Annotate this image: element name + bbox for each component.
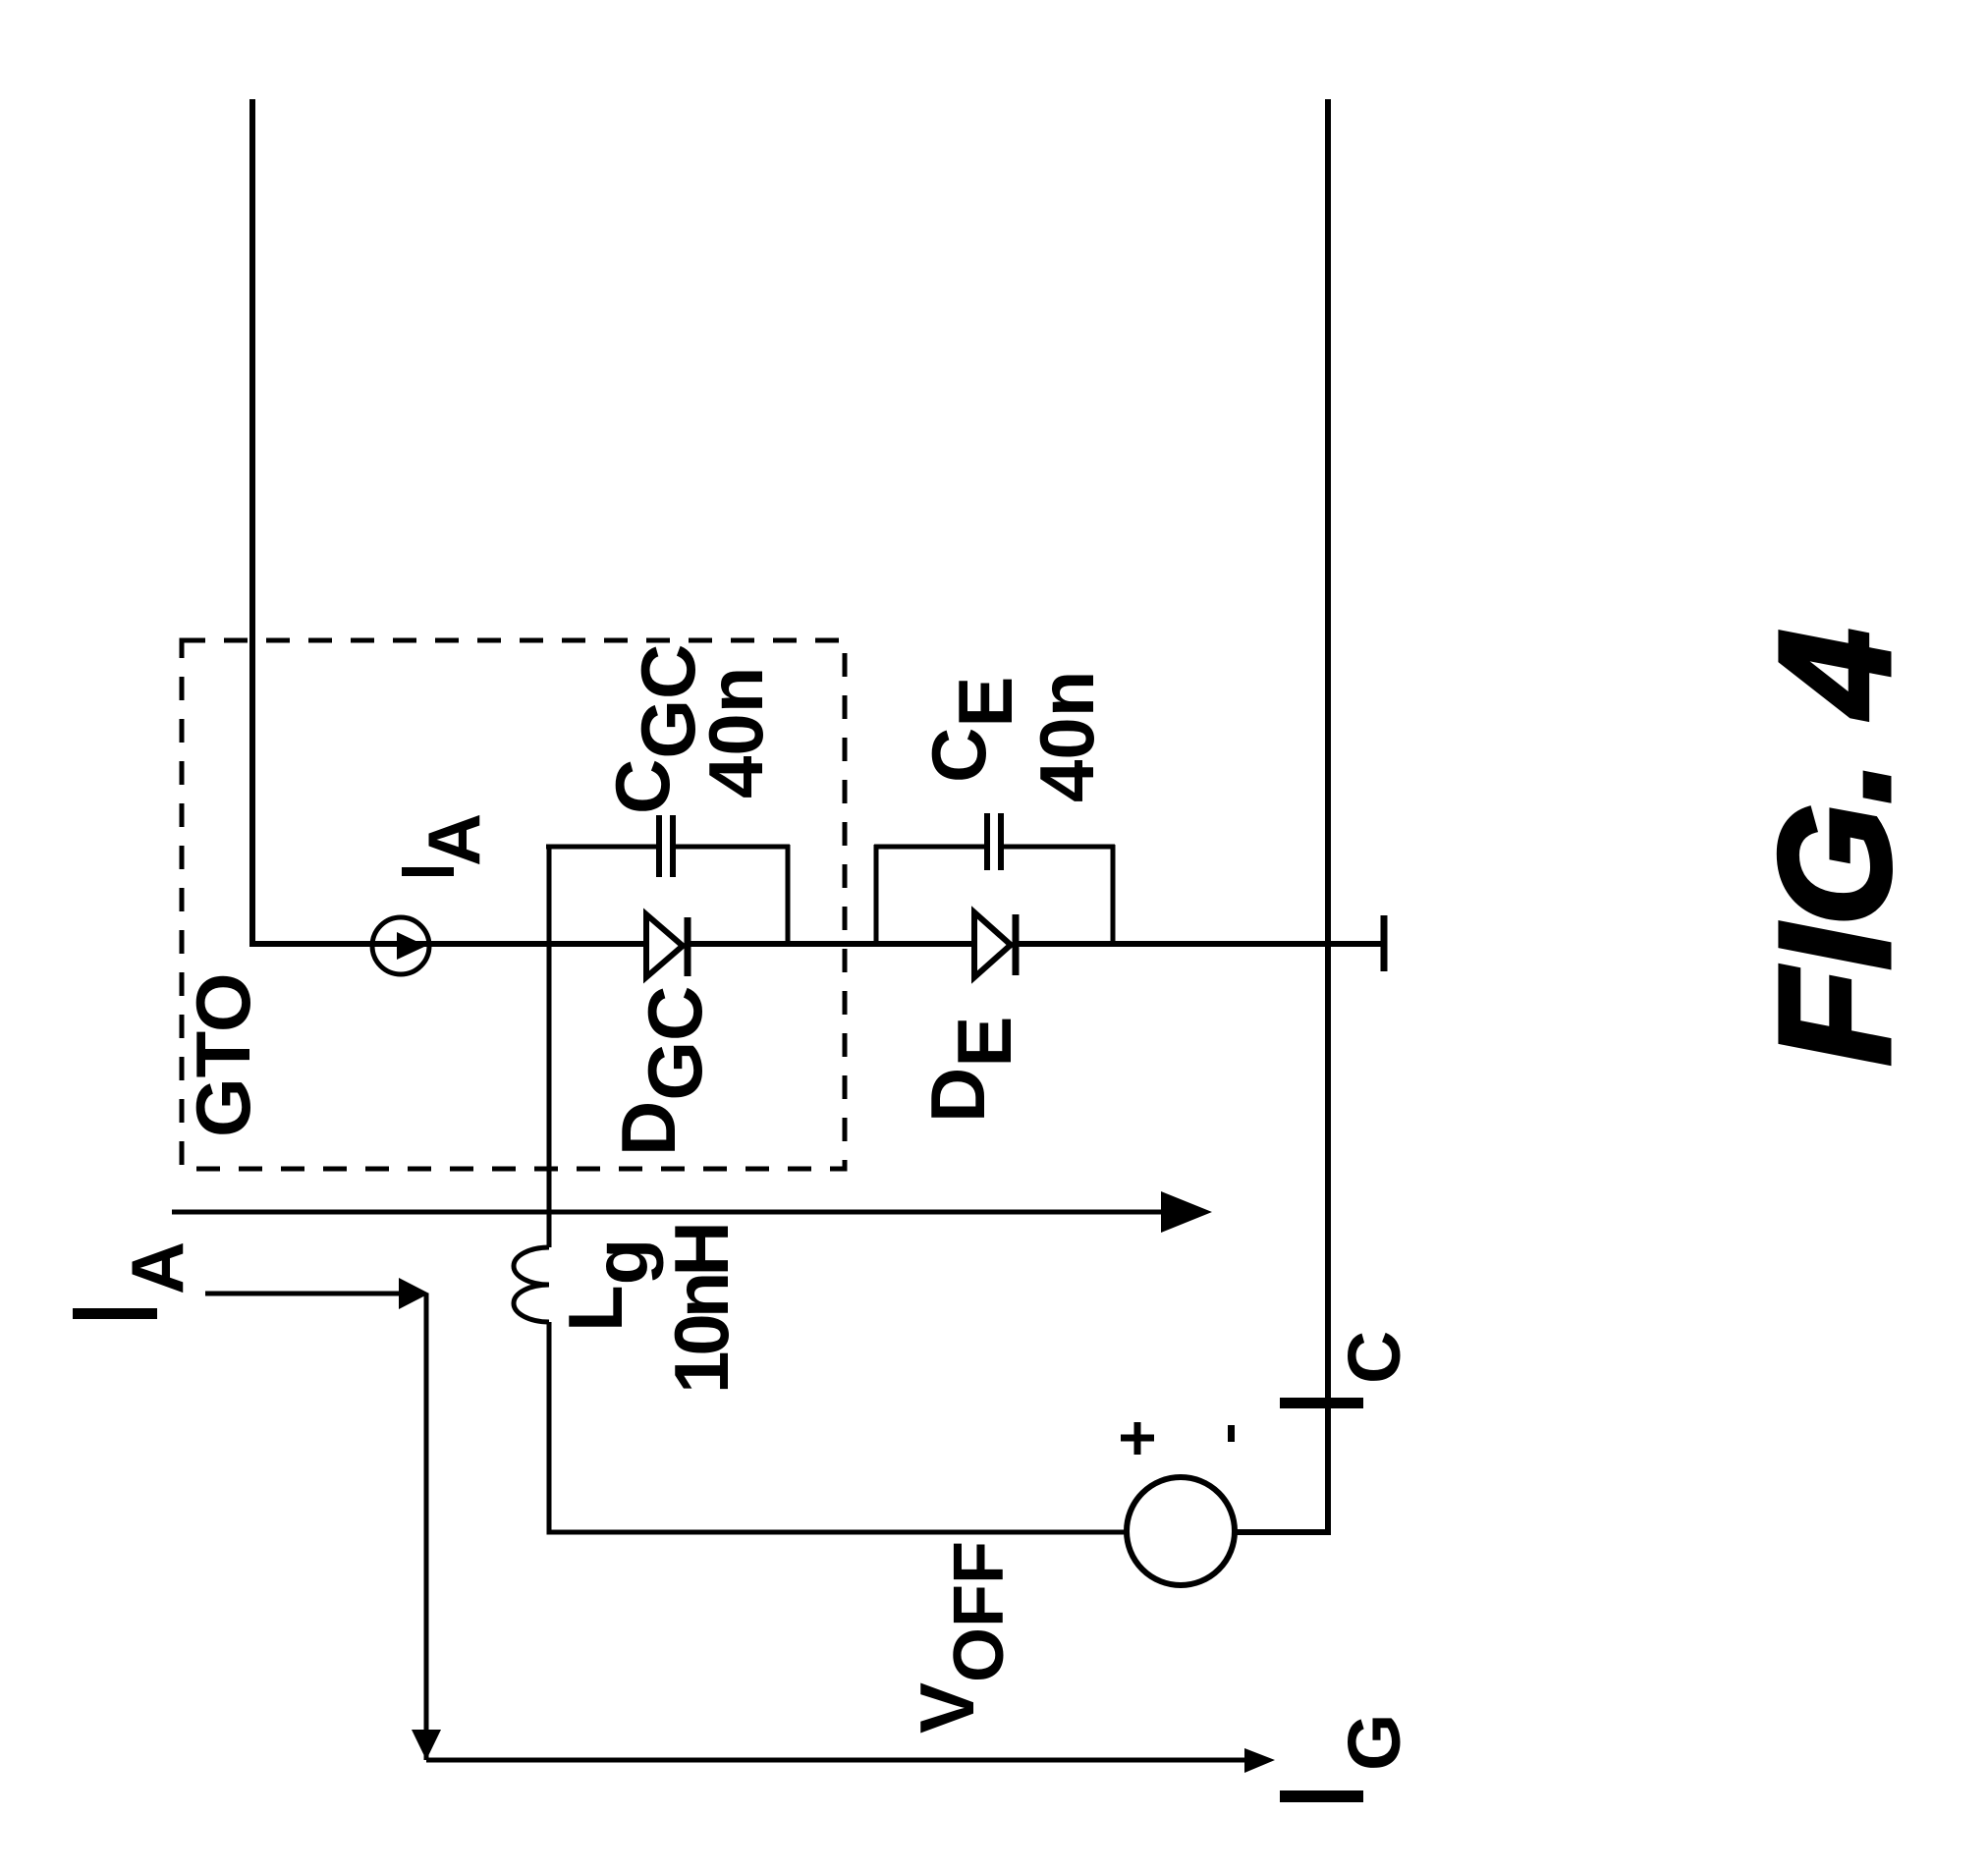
minus sign (rotated): [1228, 1425, 1235, 1442]
arrow I_A short with elbow down to I_G: [205, 1278, 1275, 1773]
wire main horizontal segment left: [249, 941, 646, 947]
svg-text:40n: 40n: [692, 667, 779, 798]
wire C_GC branch right vertical: [786, 845, 791, 944]
arrow I_A long (under GTO box): [172, 1191, 1212, 1233]
svg-text:A: A: [413, 813, 495, 866]
voltage source V_OFF circle: [1127, 1477, 1235, 1585]
capacitor C_E plates: [984, 813, 1004, 870]
wire anode lead left vertical: [249, 99, 255, 947]
wire gate vertical lower: [549, 1322, 1127, 1532]
wire main horizontal segment right: [1015, 941, 1381, 947]
wire cathode lead right vertical: [1325, 99, 1331, 1535]
svg-text:A: A: [116, 1241, 198, 1294]
wire C_GC branch top right segment: [676, 845, 790, 850]
current source circle with arrow (I_A): [372, 917, 429, 974]
svg-text:GTO: GTO: [180, 972, 266, 1137]
wire gate vertical upper (C_GC branch left + gate lead): [547, 847, 552, 1247]
svg-text:FIG. 4: FIG. 4: [1746, 629, 1922, 1066]
wire C_GC branch top left segment: [546, 845, 656, 850]
label I_A near current source: [402, 813, 495, 876]
svg-text:40n: 40n: [1023, 671, 1110, 802]
svg-text:10nH: 10nH: [658, 1226, 745, 1394]
wire V_OFF to right vertical: [1235, 1529, 1328, 1535]
diode D_E: [974, 912, 1016, 977]
terminal T bar at right end of main wire: [1381, 915, 1388, 971]
label I_G: [1280, 1714, 1415, 1802]
svg-text:G: G: [1333, 1714, 1415, 1771]
inductor Lg coil: [514, 1247, 549, 1322]
wire main horizontal segment middle: [687, 941, 974, 947]
wire C_E branch top left segment: [874, 845, 984, 850]
diode D_GC: [646, 914, 688, 977]
GTO dashed box: [182, 640, 845, 1169]
label I_C: [1280, 1331, 1415, 1408]
svg-text:C: C: [1333, 1331, 1415, 1384]
plus sign: [1121, 1422, 1154, 1455]
capacitor C_GC plates: [656, 815, 676, 877]
label I_A big at left: [73, 1241, 198, 1319]
wire C_E branch right vertical: [1111, 845, 1116, 944]
wire C_E branch top right segment: [1002, 845, 1115, 850]
wire C_E branch left vertical: [874, 845, 879, 944]
